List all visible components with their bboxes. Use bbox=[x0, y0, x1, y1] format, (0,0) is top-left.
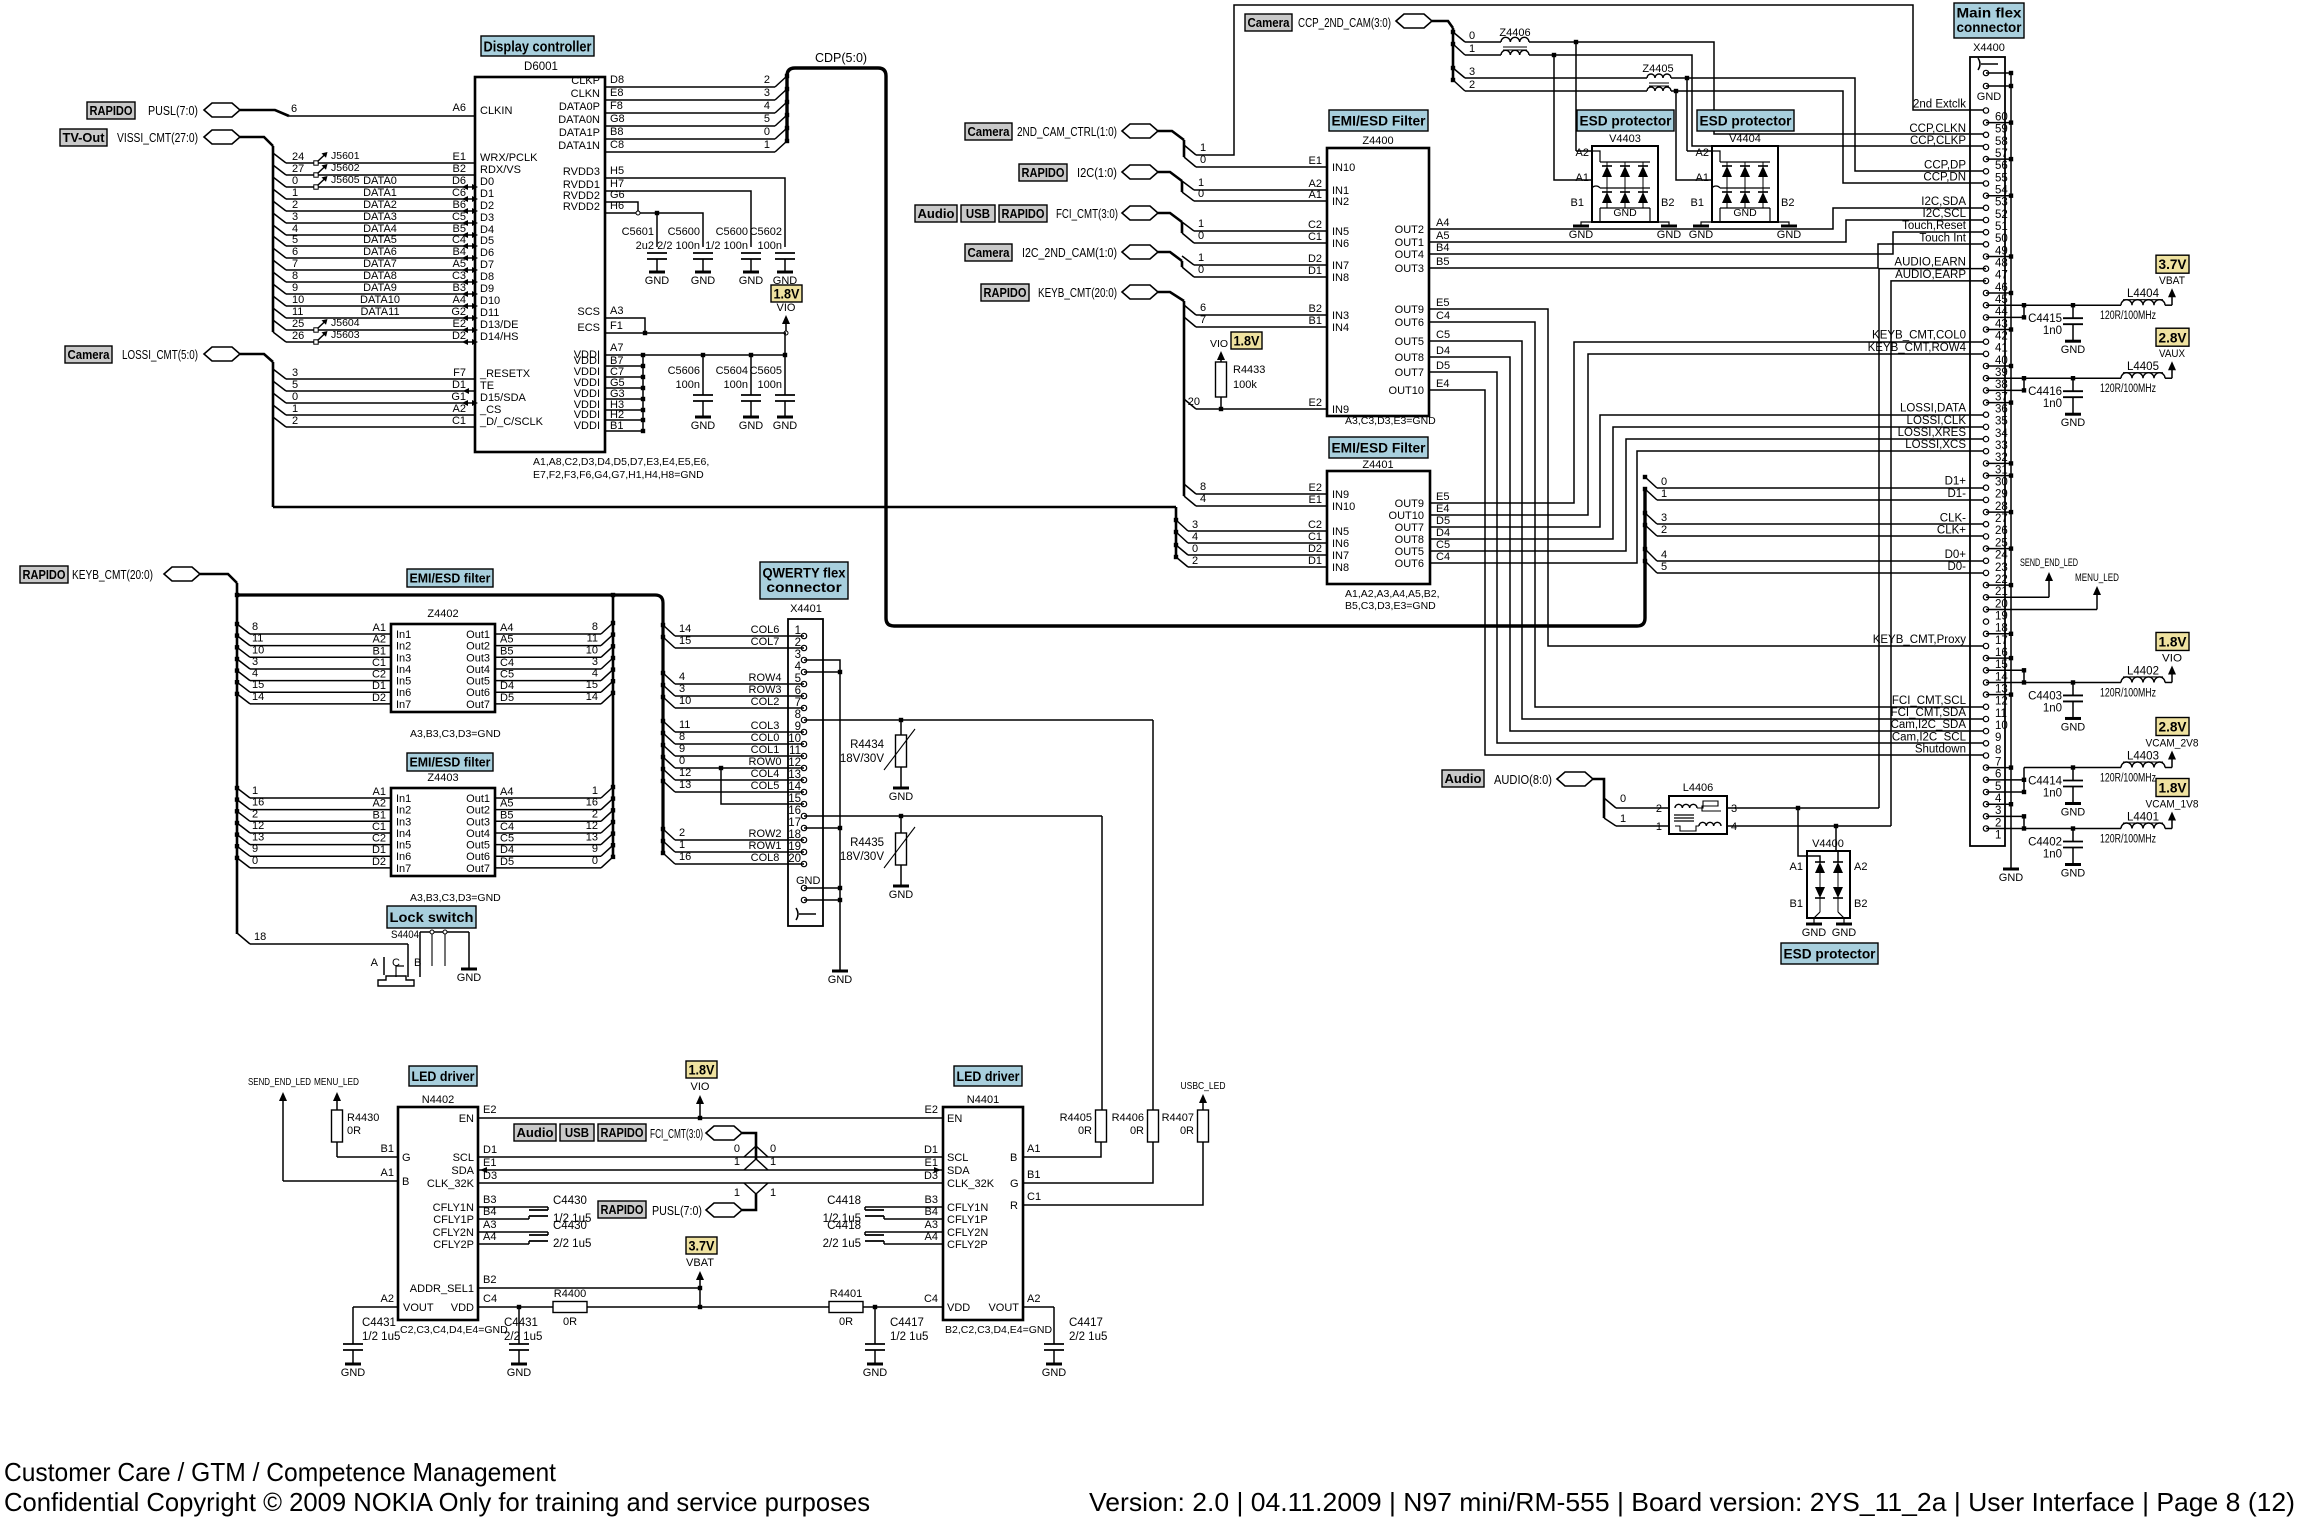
svg-text:In5: In5 bbox=[396, 676, 411, 688]
svg-text:Out3: Out3 bbox=[466, 652, 490, 664]
QWERTY flex connector title bbox=[760, 562, 848, 599]
svg-text:3: 3 bbox=[252, 656, 258, 668]
power label 1.8V VIO bbox=[2156, 632, 2189, 650]
svg-text:F1: F1 bbox=[610, 320, 623, 332]
svg-text:LOSSI,XCS: LOSSI,XCS bbox=[1905, 439, 1966, 451]
svg-text:10: 10 bbox=[1995, 720, 2008, 732]
svg-text:VISSI_CMT(27:0): VISSI_CMT(27:0) bbox=[117, 131, 198, 145]
svg-text:AUDIO,EARP: AUDIO,EARP bbox=[1895, 269, 1966, 281]
ground for C5600 bbox=[695, 271, 711, 274]
svg-text:2: 2 bbox=[292, 199, 298, 211]
wire CDP bit 0 to pin29 bbox=[1657, 487, 1986, 489]
svg-text:DATA5: DATA5 bbox=[363, 234, 397, 246]
ground lock switch bbox=[461, 968, 477, 971]
svg-text:J5605: J5605 bbox=[331, 174, 360, 186]
svg-text:0R: 0R bbox=[839, 1316, 853, 1328]
svg-text:OUT10: OUT10 bbox=[1389, 385, 1424, 397]
svg-text:D7: D7 bbox=[480, 259, 494, 271]
svg-text:GND: GND bbox=[2061, 868, 2086, 880]
wire RVDD2 G6 bbox=[605, 202, 638, 213]
svg-text:1n0: 1n0 bbox=[2043, 702, 2062, 714]
capacitor C4416 lead bbox=[2072, 378, 2074, 391]
svg-text:D6: D6 bbox=[452, 175, 466, 187]
svg-text:F7: F7 bbox=[453, 367, 466, 379]
wire VISSI_CMT bit 4 bbox=[286, 234, 475, 236]
svg-text:RAPIDO: RAPIDO bbox=[1002, 206, 1045, 221]
svg-text:SEND_END_LED: SEND_END_LED bbox=[2020, 557, 2078, 569]
wire Z4402 out2 diag bbox=[601, 635, 613, 646]
svg-text:LED driver: LED driver bbox=[957, 1068, 1020, 1084]
svg-text:IN10: IN10 bbox=[1332, 162, 1355, 174]
svg-text:25: 25 bbox=[1995, 537, 2008, 549]
svg-text:Version: 2.0 | 04.11.2009 |: Version: 2.0 | 04.11.2009 | N97 mini/RM-… bbox=[1089, 1487, 2295, 1517]
svg-text:connector: connector bbox=[766, 580, 842, 595]
wire Cam,I2C_SCL to pin8 bbox=[1429, 372, 1986, 743]
svg-text:E2: E2 bbox=[453, 318, 466, 330]
svg-text:A1: A1 bbox=[1696, 172, 1709, 184]
wire Z4403 out1 bbox=[495, 797, 601, 799]
svg-text:D1: D1 bbox=[1308, 265, 1322, 277]
wire 2ND_CAM_CTRL1 to 2nd Extclk pin60 bbox=[1196, 5, 1986, 155]
svg-text:1n0: 1n0 bbox=[2043, 788, 2062, 800]
bus hexagon KEYB_CMT bbox=[1122, 285, 1158, 299]
svg-text:V4404: V4404 bbox=[1729, 133, 1761, 145]
svg-text:C5: C5 bbox=[452, 211, 466, 223]
svg-text:17: 17 bbox=[788, 817, 801, 829]
svg-text:0: 0 bbox=[1200, 154, 1206, 166]
svg-text:24: 24 bbox=[292, 151, 304, 163]
svg-text:connector: connector bbox=[1957, 20, 2023, 35]
svg-text:A: A bbox=[371, 957, 379, 969]
svg-text:1.8V: 1.8V bbox=[689, 1062, 716, 1078]
EMI/ESD filter Z4400 body bbox=[1327, 148, 1429, 416]
svg-text:C4403: C4403 bbox=[2028, 690, 2062, 702]
wire FCI1 to IN5 bbox=[1194, 230, 1327, 232]
svg-text:DATA2: DATA2 bbox=[363, 199, 397, 211]
svg-text:B3: B3 bbox=[925, 1194, 938, 1206]
svg-text:40: 40 bbox=[1995, 355, 2008, 367]
jumper J5604 bbox=[314, 328, 318, 332]
svg-text:48: 48 bbox=[1995, 258, 2008, 270]
svg-text:47: 47 bbox=[1995, 270, 2008, 282]
svg-text:GND: GND bbox=[1777, 229, 1802, 241]
svg-text:20: 20 bbox=[1995, 598, 2008, 610]
svg-text:J5601: J5601 bbox=[331, 150, 360, 162]
bus hexagon I2C bbox=[1122, 165, 1158, 179]
svg-text:D0+: D0+ bbox=[1945, 549, 1967, 561]
wire Z4403 out2 bbox=[495, 809, 601, 811]
svg-text:2ND_CAM_CTRL(1:0): 2ND_CAM_CTRL(1:0) bbox=[1017, 125, 1117, 139]
V4403 body bbox=[1592, 146, 1658, 222]
svg-text:D1: D1 bbox=[372, 844, 386, 856]
svg-text:0: 0 bbox=[1198, 264, 1204, 276]
svg-text:Z4405: Z4405 bbox=[1642, 63, 1673, 75]
wire LOSSI_CMT bit 5 bbox=[286, 390, 475, 392]
X4400 pin 53 bbox=[1983, 193, 1988, 198]
svg-text:MENU_LED: MENU_LED bbox=[314, 1076, 359, 1088]
X4400 pin 27 bbox=[1983, 509, 1988, 514]
bus hexagon FCI_CMT bbox=[1122, 206, 1158, 220]
V4400 body bbox=[1807, 851, 1850, 918]
wire X4400 pin 15 to GND rail bbox=[1986, 657, 2011, 659]
svg-text:0R: 0R bbox=[1180, 1125, 1194, 1137]
wire VISSI_CMT bit 10 bbox=[286, 305, 475, 307]
svg-text:5: 5 bbox=[764, 113, 770, 125]
bus CDP(5:0) bbox=[787, 68, 1645, 626]
svg-text:3: 3 bbox=[1469, 66, 1475, 78]
wire R4430 to N4402 G bbox=[337, 1156, 398, 1158]
svg-text:54: 54 bbox=[1995, 185, 2008, 197]
svg-text:3: 3 bbox=[1995, 805, 2001, 817]
svg-text:IN3: IN3 bbox=[1332, 310, 1349, 322]
svg-text:CFLY1N: CFLY1N bbox=[947, 1202, 988, 1214]
wire Z4402 in3 diag bbox=[237, 647, 250, 657]
svg-text:5: 5 bbox=[292, 379, 298, 391]
svg-text:20: 20 bbox=[788, 853, 801, 865]
svg-text:1: 1 bbox=[252, 785, 258, 797]
svg-text:KEYB_CMT(20:0): KEYB_CMT(20:0) bbox=[1038, 286, 1117, 300]
X4400 pin 38 bbox=[1983, 376, 1988, 381]
wire KEYB20 to IN9 bbox=[1196, 408, 1327, 410]
svg-text:R4405: R4405 bbox=[1060, 1112, 1092, 1124]
svg-text:B1: B1 bbox=[610, 420, 623, 432]
wire LOSSI bit 4 to Z4401 bbox=[1188, 542, 1327, 544]
X4400 pin 41 bbox=[1983, 339, 1988, 344]
svg-text:OUT6: OUT6 bbox=[1395, 317, 1424, 329]
svg-text:D2: D2 bbox=[372, 856, 386, 868]
svg-text:F8: F8 bbox=[610, 100, 623, 112]
wire Z4403 out4 bbox=[495, 832, 601, 834]
wire diag to CDP bus bbox=[775, 115, 787, 126]
svg-text:IN5: IN5 bbox=[1332, 526, 1349, 538]
svg-text:4: 4 bbox=[1192, 531, 1198, 543]
svg-text:CFLY1P: CFLY1P bbox=[947, 1214, 988, 1226]
ground C4431 bbox=[345, 1363, 361, 1366]
wire Shutdown to pin7 bbox=[1429, 390, 1986, 755]
wire diag to CDP bus bbox=[775, 141, 787, 152]
svg-text:ROW3: ROW3 bbox=[749, 684, 782, 696]
svg-text:C3: C3 bbox=[452, 270, 466, 282]
svg-text:C4: C4 bbox=[500, 657, 514, 669]
svg-text:0R: 0R bbox=[1130, 1125, 1144, 1137]
wire VISSI tail bbox=[240, 137, 273, 146]
wire X4401 pin3 GND bus bbox=[804, 660, 840, 971]
svg-text:VIO: VIO bbox=[777, 302, 796, 314]
svg-text:IN4: IN4 bbox=[1332, 322, 1349, 334]
wire X4401 GNDa bbox=[804, 887, 840, 889]
inductor L4401 120R/100MHz bbox=[2073, 828, 2121, 830]
svg-text:0: 0 bbox=[1192, 543, 1198, 555]
svg-text:_CS: _CS bbox=[479, 404, 501, 416]
svg-text:21: 21 bbox=[1995, 586, 2008, 598]
svg-text:C5: C5 bbox=[500, 669, 514, 681]
X4400 pin 57 bbox=[1983, 144, 1988, 149]
wire FCI bottom tail bbox=[742, 1133, 756, 1159]
EMI/ESD filter title Z4402 bbox=[407, 569, 493, 587]
svg-text:GND: GND bbox=[1802, 927, 1827, 939]
wire CDP bit 3 to pin26 bbox=[1657, 523, 1986, 525]
svg-text:GND: GND bbox=[1689, 229, 1714, 241]
X4400 pin 43 bbox=[1983, 315, 1988, 320]
wire LOSSI_CMT bit 1 bbox=[286, 414, 475, 416]
svg-text:120R/100MHz: 120R/100MHz bbox=[2100, 773, 2156, 785]
power label 1.8V VCAM_1V8 bbox=[2156, 779, 2189, 797]
svg-text:D13/DE: D13/DE bbox=[480, 319, 519, 331]
wire diag FCI bit0 bbox=[1182, 233, 1194, 243]
svg-text:E8: E8 bbox=[610, 87, 623, 99]
resistor R4406 0R bbox=[1148, 1110, 1159, 1142]
svg-text:A1: A1 bbox=[1576, 172, 1589, 184]
svg-text:B2: B2 bbox=[453, 163, 466, 175]
arrow USBC_LED bbox=[1202, 1100, 1204, 1110]
X4400 pin 23 bbox=[1983, 558, 1988, 563]
X4400 pin 5 bbox=[1983, 777, 1988, 782]
ground C4417 bbox=[1046, 1363, 1062, 1366]
svg-text:In1: In1 bbox=[396, 793, 411, 805]
svg-text:D4: D4 bbox=[1436, 527, 1450, 539]
wire diag bbox=[273, 308, 286, 318]
X4400 pin 54 bbox=[1983, 181, 1988, 186]
arrow VCAM_2V8 bbox=[2171, 757, 2173, 768]
EMI/ESD Filter title Z4401 bbox=[1329, 437, 1428, 458]
X4400 pin 40 bbox=[1983, 351, 1988, 356]
svg-text:RAPIDO: RAPIDO bbox=[23, 567, 66, 582]
X4401 pin 5 bbox=[801, 681, 806, 686]
X4401 pin 14 bbox=[801, 789, 806, 794]
svg-text:R4435: R4435 bbox=[850, 837, 884, 849]
svg-text:E2: E2 bbox=[1309, 482, 1322, 494]
power group VAUX bbox=[1986, 377, 2024, 379]
svg-text:27: 27 bbox=[292, 163, 304, 175]
svg-text:TE: TE bbox=[480, 380, 494, 392]
resistor R4401 0R bbox=[829, 1302, 863, 1313]
bus ref RAPIDO KEYB_CMT(20:0) left bbox=[20, 566, 68, 583]
svg-text:OUT1: OUT1 bbox=[1395, 237, 1424, 249]
ground C4403 bbox=[2065, 717, 2081, 720]
svg-text:Touch Int: Touch Int bbox=[1919, 232, 1966, 244]
svg-text:IN7: IN7 bbox=[1332, 550, 1349, 562]
wire diag bbox=[663, 853, 675, 864]
wire Z4403 out5 diag bbox=[601, 834, 613, 845]
svg-text:18V/30V: 18V/30V bbox=[840, 851, 884, 863]
svg-text:4: 4 bbox=[1661, 549, 1667, 561]
svg-text:D4: D4 bbox=[500, 844, 514, 856]
bus VISSI vertical bbox=[272, 146, 275, 332]
wire VDD rail bbox=[587, 1306, 829, 1308]
svg-text:D0: D0 bbox=[480, 176, 494, 188]
svg-text:3: 3 bbox=[679, 683, 685, 695]
ground V4400 B2 bbox=[1836, 923, 1852, 926]
bus KEYB filter-out vertical bbox=[612, 595, 615, 858]
svg-text:CFLY2N: CFLY2N bbox=[433, 1227, 474, 1239]
X4400 pin 20 bbox=[1983, 595, 1988, 600]
svg-text:16: 16 bbox=[586, 797, 598, 809]
ground C4402 bbox=[2065, 863, 2081, 866]
svg-text:19: 19 bbox=[1995, 610, 2008, 622]
svg-text:23: 23 bbox=[1995, 562, 2008, 574]
svg-text:COL0: COL0 bbox=[751, 732, 780, 744]
wire diag bbox=[663, 769, 675, 780]
capacitor C4431 1/2 1u5 bbox=[352, 1307, 354, 1344]
svg-text:GND: GND bbox=[645, 275, 670, 287]
wire ROW0 to X4401 pin 12 bbox=[675, 767, 804, 769]
svg-text:L4405: L4405 bbox=[2127, 361, 2159, 373]
svg-text:4: 4 bbox=[795, 661, 802, 673]
wire COL8 to X4401 pin 20 bbox=[675, 863, 804, 865]
svg-text:E1: E1 bbox=[483, 1157, 496, 1169]
wire Z4403 in7 diag bbox=[237, 858, 250, 868]
svg-text:DATA10: DATA10 bbox=[360, 294, 400, 306]
svg-text:FCI_CMT(3:0): FCI_CMT(3:0) bbox=[650, 1127, 703, 1141]
svg-text:EMI/ESD filter: EMI/ESD filter bbox=[410, 571, 491, 586]
wire KEYB_CMT,COL0 to pin41 bbox=[1430, 342, 1986, 503]
X4400 pin 1 bbox=[1983, 826, 1988, 831]
wire ROW2 to X4401 pin 18 bbox=[675, 839, 804, 841]
jumper J5603 bbox=[314, 340, 318, 344]
X4400 pin 29 bbox=[1983, 485, 1988, 490]
svg-text:1: 1 bbox=[1198, 252, 1204, 264]
svg-text:1: 1 bbox=[1620, 813, 1626, 825]
varistor R4434 18V/30V bbox=[900, 720, 902, 735]
wire LOSSI,CLK to pin34 bbox=[1430, 427, 1986, 539]
arrow MENU_LED left bbox=[336, 1098, 338, 1110]
X4400 pin 44 bbox=[1983, 303, 1988, 308]
svg-text:LED driver: LED driver bbox=[412, 1068, 475, 1084]
svg-text:EMI/ESD Filter: EMI/ESD Filter bbox=[1332, 113, 1427, 129]
ground for C5600 bbox=[743, 271, 759, 274]
wire diag FCI bit1 bbox=[1182, 222, 1194, 231]
svg-text:C5: C5 bbox=[500, 833, 514, 845]
svg-text:B5: B5 bbox=[500, 645, 513, 657]
svg-text:1: 1 bbox=[1995, 830, 2001, 842]
svg-text:COL7: COL7 bbox=[751, 636, 780, 648]
svg-text:VOUT: VOUT bbox=[988, 1302, 1019, 1314]
svg-text:0: 0 bbox=[1661, 476, 1667, 488]
svg-text:1n0: 1n0 bbox=[2043, 398, 2062, 410]
svg-text:0R: 0R bbox=[563, 1316, 577, 1328]
wire AUDIO,EARP vertical bbox=[1891, 281, 1986, 826]
capacitor C4402 lead bbox=[2072, 829, 2074, 842]
svg-text:C5601: C5601 bbox=[622, 226, 654, 238]
svg-text:PUSL(7:0): PUSL(7:0) bbox=[652, 1204, 702, 1218]
svg-text:Out7: Out7 bbox=[466, 699, 490, 711]
svg-text:COL4: COL4 bbox=[751, 768, 780, 780]
wire Z4402 out6 diag bbox=[601, 681, 613, 692]
Main flex connector title bbox=[1954, 3, 2024, 38]
svg-text:8: 8 bbox=[1995, 744, 2001, 756]
display controller title box bbox=[481, 36, 594, 56]
svg-text:IN8: IN8 bbox=[1332, 562, 1349, 574]
X4400 pin 18 bbox=[1983, 619, 1988, 624]
svg-text:B5: B5 bbox=[1436, 256, 1449, 268]
bus hexagon FCI_CMT bottom bbox=[706, 1126, 742, 1140]
svg-text:4: 4 bbox=[1200, 493, 1206, 505]
svg-text:D4: D4 bbox=[1436, 345, 1450, 357]
ground C4417 bbox=[867, 1363, 883, 1366]
svg-text:B1: B1 bbox=[1691, 197, 1704, 209]
svg-text:26: 26 bbox=[1995, 525, 2008, 537]
svg-text:6: 6 bbox=[292, 246, 298, 258]
svg-text:D8: D8 bbox=[610, 74, 624, 86]
bus hexagon I2C_2ND_CAM bbox=[1122, 245, 1158, 259]
X4400 pin 35 bbox=[1983, 412, 1988, 417]
svg-text:D2: D2 bbox=[1308, 253, 1322, 265]
svg-text:GND: GND bbox=[2061, 807, 2086, 819]
svg-text:B5: B5 bbox=[500, 809, 513, 821]
wire PUSL bottom tail bbox=[742, 1194, 756, 1210]
main flex connector X4400 body bbox=[1970, 57, 2005, 846]
capacitor C4417 2/2 1u5 bbox=[1053, 1307, 1055, 1344]
svg-text:D10: D10 bbox=[480, 295, 500, 307]
svg-text:Z4401: Z4401 bbox=[1362, 459, 1393, 471]
svg-text:R4400: R4400 bbox=[554, 1288, 586, 1300]
svg-text:CDP(5:0): CDP(5:0) bbox=[815, 51, 867, 65]
X4401 pin 9 bbox=[801, 729, 806, 734]
svg-text:14: 14 bbox=[679, 623, 691, 635]
wire RVDD2 H6 to caps bbox=[605, 213, 703, 247]
wire X4400 pin 6 to GND rail bbox=[1986, 767, 2011, 769]
wire Z4403 out6 bbox=[495, 855, 601, 857]
wire diag bbox=[273, 177, 286, 187]
svg-text:4: 4 bbox=[252, 668, 258, 680]
X4400 pin 9 bbox=[1983, 728, 1988, 733]
svg-text:28: 28 bbox=[1995, 501, 2008, 513]
svg-text:C4414: C4414 bbox=[2028, 776, 2062, 788]
svg-text:D1+: D1+ bbox=[1945, 476, 1967, 488]
svg-text:EMI/ESD Filter: EMI/ESD Filter bbox=[1332, 440, 1427, 456]
inductor L4405 120R/100MHz bbox=[2073, 377, 2121, 379]
svg-text:8: 8 bbox=[292, 270, 298, 282]
svg-text:ROW1: ROW1 bbox=[749, 840, 782, 852]
X4401 pin 10 bbox=[801, 741, 806, 746]
svg-text:57: 57 bbox=[1995, 148, 2008, 160]
svg-text:Z4402: Z4402 bbox=[427, 608, 458, 620]
wire Z4402 out7 diag bbox=[601, 693, 613, 704]
wire diag bbox=[273, 260, 286, 270]
svg-text:DATA3: DATA3 bbox=[363, 211, 397, 223]
power label 1.8V bbox=[1231, 332, 1262, 349]
ground V4400 B1 bbox=[1806, 923, 1822, 926]
svg-text:L4406: L4406 bbox=[1683, 782, 1714, 794]
svg-text:D2: D2 bbox=[480, 200, 494, 212]
wire FCI diag 0L bbox=[744, 1146, 756, 1157]
svg-text:VCAM_1V8: VCAM_1V8 bbox=[2146, 799, 2199, 811]
wire Z4403 out2 diag bbox=[601, 799, 613, 810]
svg-text:In3: In3 bbox=[396, 652, 411, 664]
svg-text:CLK-: CLK- bbox=[1940, 512, 1966, 524]
svg-text:0: 0 bbox=[252, 855, 258, 867]
X4400 pin 32 bbox=[1983, 449, 1988, 454]
svg-text:LOSSI,CLK: LOSSI,CLK bbox=[1907, 415, 1967, 427]
svg-text:In6: In6 bbox=[396, 851, 411, 863]
svg-text:COL8: COL8 bbox=[751, 852, 780, 864]
svg-text:C4: C4 bbox=[1436, 310, 1450, 322]
svg-text:IN7: IN7 bbox=[1332, 260, 1349, 272]
bus ref TV-Out VISSI_CMT(27:0) bbox=[60, 129, 107, 146]
wire CDP bit 4 to pin23 bbox=[1657, 560, 1986, 562]
svg-text:44: 44 bbox=[1995, 306, 2008, 318]
wire LOSSI diag bit 2 bbox=[1176, 557, 1188, 567]
wire DATA0N to CDP bus bbox=[605, 125, 775, 127]
ESD protector V4403 bbox=[1577, 110, 1674, 131]
bus KEYB vertical mid bbox=[1183, 301, 1186, 496]
svg-text:120R/100MHz: 120R/100MHz bbox=[2100, 834, 2156, 846]
LED driver N4401 body bbox=[943, 1107, 1023, 1320]
svg-text:D5: D5 bbox=[480, 235, 494, 247]
wire KEYB7 to IN4 bbox=[1196, 326, 1327, 328]
svg-text:Camera: Camera bbox=[968, 124, 1011, 139]
svg-text:E2: E2 bbox=[925, 1104, 938, 1116]
